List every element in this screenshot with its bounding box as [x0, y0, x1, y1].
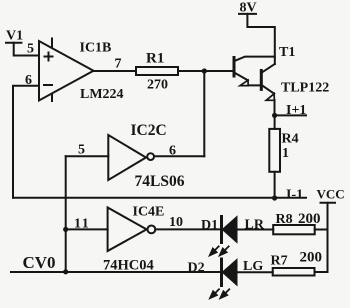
op-amp minus input marker: [44, 84, 52, 86]
wire R7 to VCC rail: [315, 271, 328, 273]
transistor TLP122 emitter arrow: [266, 94, 274, 101]
wire vertical net CV0/pin5/pin11: [65, 156, 67, 271]
node junction CV0: [63, 269, 68, 274]
svg-text:IC1B: IC1B: [80, 40, 112, 55]
resistor R7 body: [273, 268, 315, 276]
svg-text:TLP122: TLP122: [281, 80, 329, 95]
op-amp U IC1B body: [39, 41, 94, 101]
wire pin6 feedback left: [13, 86, 39, 198]
LED D2 cathode bar: [220, 259, 223, 286]
svg-text:T1: T1: [279, 45, 295, 60]
svg-text:5: 5: [27, 42, 34, 57]
svg-text:74LS06: 74LS06: [135, 173, 185, 190]
wire D1 to R8: [237, 229, 274, 231]
wire CV0 line: [11, 271, 221, 273]
wire R4 top: [274, 115, 276, 128]
svg-text:200: 200: [298, 211, 321, 227]
svg-text:D2: D2: [188, 261, 205, 276]
LED D1 triangle: [223, 218, 237, 242]
svg-text:V1: V1: [6, 29, 23, 44]
svg-text:IC2C: IC2C: [131, 122, 167, 139]
wire R8 to VCC rail: [315, 229, 328, 231]
svg-text:R1: R1: [146, 50, 164, 66]
svg-text:6: 6: [169, 144, 176, 159]
svg-text:CV0: CV0: [23, 253, 56, 272]
svg-text:5: 5: [78, 142, 85, 157]
wire IC4E input pin11: [66, 228, 108, 230]
node junction I+1: [272, 113, 277, 118]
resistor R8 body: [273, 225, 315, 234]
node junction R1/base/IC2C: [202, 68, 207, 73]
svg-text:I-1: I-1: [286, 187, 303, 202]
svg-text:D1: D1: [201, 218, 218, 233]
wire long bottom feedback/I-1 line: [13, 197, 306, 199]
svg-text:R8: R8: [276, 212, 293, 227]
svg-text:VCC: VCC: [317, 186, 345, 201]
node VCC terminal: [321, 203, 336, 272]
wire R4 bottom: [274, 172, 276, 198]
resistor R4 body: [269, 129, 280, 172]
wire IC4E output pin10 to D1: [155, 228, 220, 230]
LED D1 cathode bar: [220, 217, 223, 243]
op-amp power tick top: [51, 39, 53, 48]
svg-text:LG: LG: [243, 259, 263, 274]
transistor Q T1 base bar: [233, 58, 236, 77]
inverter IC4E bubble: [148, 226, 156, 234]
wire junction down to IC2C output: [203, 71, 205, 156]
transistor T1 emitter arrow: [240, 80, 248, 85]
svg-text:11: 11: [74, 217, 90, 232]
wire D2 to R7: [237, 271, 273, 273]
wire op-amp output to R1: [94, 70, 137, 72]
LED D1 emission arrows: [210, 246, 230, 256]
svg-text:R4: R4: [282, 131, 299, 146]
svg-text:I+1: I+1: [286, 103, 306, 118]
wire IC2C input pin5: [66, 155, 109, 157]
svg-text:1: 1: [282, 146, 289, 161]
inverter U IC2C body: [108, 135, 146, 180]
LED D2 emission arrows: [210, 289, 230, 299]
svg-text:10: 10: [169, 215, 183, 230]
wire IC2C output: [155, 155, 204, 157]
svg-text:74HC04: 74HC04: [103, 257, 154, 273]
node junction pin11: [63, 227, 68, 232]
svg-text:200: 200: [300, 250, 323, 266]
inverter U IC4E body: [108, 208, 147, 252]
transistor T1 emitter: [235, 73, 261, 86]
wire I+1 stub: [275, 114, 306, 116]
node 8V terminal: [239, 14, 275, 64]
inverter IC2C bubble: [147, 153, 154, 160]
svg-text:LM224: LM224: [80, 87, 124, 102]
svg-text:6: 6: [25, 73, 32, 88]
node V1 terminal: [6, 43, 39, 56]
op-amp plus input marker: [45, 53, 53, 61]
transistor T1 collector: [235, 57, 275, 61]
svg-text:270: 270: [147, 77, 168, 92]
op-amp power tick bottom: [51, 94, 53, 101]
node junction I-1: [272, 195, 277, 200]
svg-text:8V: 8V: [240, 0, 257, 15]
resistor R1 body: [136, 67, 178, 75]
svg-text:7: 7: [115, 56, 122, 71]
wire R1 to T1 base: [178, 70, 233, 72]
svg-text:LR: LR: [245, 218, 265, 233]
transistor Q TLP122 base bar: [260, 71, 263, 90]
svg-text:IC4E: IC4E: [133, 204, 165, 219]
LED D2 triangle: [223, 260, 237, 284]
svg-text:R7: R7: [271, 253, 288, 268]
transistor TLP122 collector: [262, 64, 275, 72]
transistor TLP122 emitter: [262, 85, 275, 115]
